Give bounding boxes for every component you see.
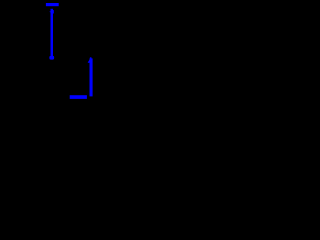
wire W1 (vertical)	[51, 9, 54, 57]
wire W2 end stub (top)	[90, 57, 92, 59]
arrowhead (pin 1 marker) on wire W1	[49, 10, 54, 14]
wire W2 (vertical)	[90, 58, 93, 96]
background	[0, 0, 120, 114]
wire W3 (horizontal)	[70, 95, 87, 99]
junction dot at bottom of wire W1	[49, 56, 54, 60]
power rail bar (VCC)	[46, 3, 59, 6]
arrowhead (pin 1 marker) on wire W2	[88, 59, 90, 63]
